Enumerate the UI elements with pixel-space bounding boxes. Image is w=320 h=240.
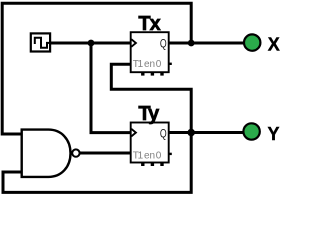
svg-text:X: X xyxy=(268,35,280,55)
svg-text:T1en0: T1en0 xyxy=(133,59,162,70)
svg-text:Tx: Tx xyxy=(138,13,160,35)
svg-text:Ty: Ty xyxy=(138,103,160,125)
svg-text:T1en0: T1en0 xyxy=(133,151,162,162)
svg-text:Y: Y xyxy=(268,124,280,144)
svg-text:Q: Q xyxy=(160,126,167,140)
svg-text:Q: Q xyxy=(160,37,167,51)
